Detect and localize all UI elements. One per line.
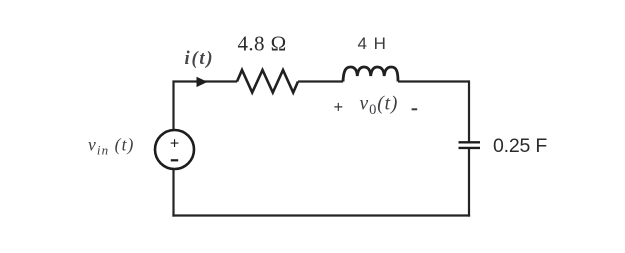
wire top middle segment	[298, 80, 343, 82]
capacitor 0.25 F	[459, 142, 481, 148]
svg-text:i(t): i(t)	[185, 49, 215, 69]
voltage source vin	[155, 130, 194, 169]
wire top right segment	[398, 80, 469, 82]
voltage source minus sign	[171, 159, 178, 161]
svg-text:4.8 Ω: 4.8 Ω	[238, 32, 287, 56]
current arrow i(t)	[197, 77, 208, 87]
svg-text:v0(t): v0(t)	[360, 94, 399, 119]
svg-text:+: +	[170, 136, 179, 153]
wire right vertical bottom	[468, 149, 470, 217]
svg-text:4 H: 4 H	[358, 34, 387, 53]
wire right vertical top	[468, 80, 470, 141]
svg-text:+: +	[334, 99, 344, 117]
resistor 4.8 ohm	[237, 70, 298, 93]
svg-text:0.25 F: 0.25 F	[493, 135, 547, 157]
wire left vertical bottom	[172, 170, 174, 217]
wire bottom	[172, 214, 470, 216]
svg-text:vin (t): vin (t)	[88, 135, 134, 158]
wire top left segment	[174, 82, 238, 130]
inductor 4 H	[343, 67, 398, 82]
